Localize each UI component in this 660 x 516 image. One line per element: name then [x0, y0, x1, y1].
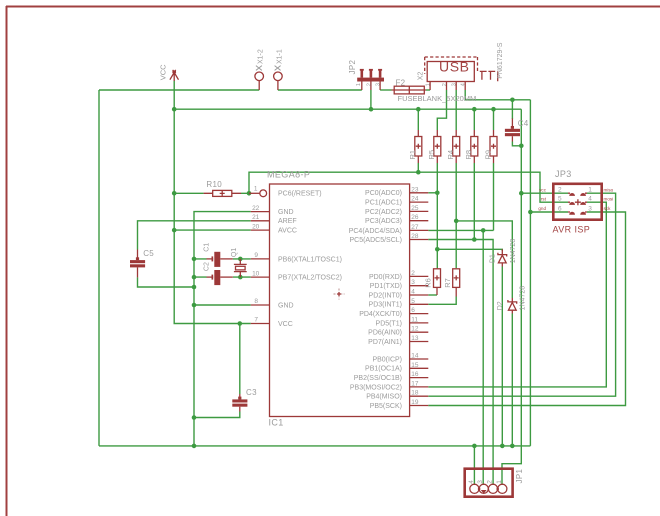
- junction at 521.3,145.8: [519, 144, 524, 149]
- JP3 pin numbers: [558, 186, 592, 212]
- resistor R8: [471, 130, 478, 163]
- IC left pin names: [278, 191, 342, 328]
- svg-text:PB7(XTAL2/TOSC2): PB7(XTAL2/TOSC2): [278, 275, 342, 282]
- svg-text:1: 1: [496, 480, 503, 484]
- svg-text:2: 2: [411, 270, 415, 277]
- VCC supply symbol: [170, 70, 179, 81]
- svg-text:11: 11: [411, 316, 418, 323]
- svg-text:USB: USB: [439, 58, 470, 74]
- svg-text:MEGA8-P: MEGA8-P: [267, 170, 310, 180]
- wire R4 bottom to R7 top: [455, 163, 457, 268]
- svg-text:6: 6: [558, 205, 562, 212]
- wire R10 left to VCC rail: [174, 192, 203, 194]
- wire GND right vertical: [529, 100, 531, 446]
- wire row10 rail to C2: [194, 276, 251, 278]
- svg-text:PD0(RXD): PD0(RXD): [369, 274, 402, 281]
- svg-text:2: 2: [487, 480, 494, 484]
- capacitor C3: [232, 394, 247, 412]
- wire GND top right from USB pin4: [465, 90, 530, 100]
- pin header JP2: [357, 69, 384, 90]
- svg-text:VCC: VCC: [278, 321, 293, 328]
- JP3 net labels: [538, 187, 613, 211]
- svg-text:21: 21: [252, 214, 260, 221]
- svg-text:VCC: VCC: [159, 64, 168, 80]
- svg-text:28: 28: [411, 233, 419, 240]
- svg-text:X1-2: X1-2: [258, 49, 265, 64]
- junction at 249,193.3: [247, 191, 252, 196]
- svg-text:22: 22: [252, 205, 260, 212]
- svg-text:C5: C5: [143, 249, 154, 258]
- svg-text:PD4(XCK/T0): PD4(XCK/T0): [359, 311, 402, 318]
- wire JP2 pin3 to F2: [380, 89, 391, 91]
- IC left pin numbers: [252, 186, 260, 324]
- svg-text:1N4728: 1N4728: [519, 286, 526, 311]
- capacitor C1: [207, 252, 233, 267]
- junction at 502.3,445.9: [500, 444, 505, 449]
- junction at 194,305: [192, 303, 197, 308]
- svg-text:gnd: gnd: [538, 206, 546, 211]
- svg-text:23: 23: [411, 186, 419, 193]
- wire JP1 pin4 GND: [473, 446, 475, 485]
- wire C4 top to GND wire: [511, 100, 513, 119]
- wire SDA branch to JP1 pin3: [482, 230, 484, 485]
- junction at 194,277.1: [192, 275, 197, 280]
- svg-text:14: 14: [411, 353, 419, 360]
- svg-text:PC5(ADC5/SCL): PC5(ADC5/SCL): [349, 237, 402, 244]
- wire pin23 to R5 column: [428, 192, 437, 194]
- svg-text:12: 12: [411, 326, 419, 333]
- svg-text:vcc: vcc: [539, 187, 547, 192]
- svg-text:PB5(SCK): PB5(SCK): [370, 403, 402, 410]
- svg-text:PB0(ICP): PB0(ICP): [372, 356, 402, 363]
- pin header JP3 AVR ISP: [553, 184, 601, 220]
- svg-text:PB6(XTAL1/TOSC1): PB6(XTAL1/TOSC1): [278, 256, 342, 263]
- wire USB pin3 to R4 top: [455, 90, 457, 130]
- svg-text:R6: R6: [424, 278, 433, 288]
- capacitor C2: [207, 270, 233, 285]
- junction at 194,445.9: [192, 444, 197, 449]
- wire SCK JP3 pin3 to PB5 pin19: [428, 212, 625, 406]
- svg-text:PC1(ADC1): PC1(ADC1): [365, 200, 402, 207]
- diode D1 zener 1N4728: [498, 249, 507, 266]
- svg-text:3: 3: [477, 480, 484, 484]
- svg-text:17: 17: [411, 380, 419, 387]
- svg-text:15: 15: [411, 362, 419, 369]
- svg-text:5: 5: [411, 298, 415, 305]
- svg-text:D1: D1: [489, 254, 496, 263]
- svg-text:R5: R5: [427, 150, 436, 160]
- svg-text:PB3(MOSI/OC2): PB3(MOSI/OC2): [350, 384, 402, 391]
- svg-text:9: 9: [254, 252, 258, 259]
- capacitor C4: [505, 119, 520, 142]
- wire JP3 pin2 VCC: [521, 192, 568, 194]
- junction at 418.3,172.2: [416, 170, 421, 175]
- wire R9 bottom SDA column: [493, 163, 495, 230]
- wire GND pin8: [194, 304, 251, 306]
- junction at 371,109.2: [369, 107, 374, 112]
- svg-text:sck: sck: [604, 206, 612, 211]
- svg-text:PB1(OC1A): PB1(OC1A): [365, 366, 402, 373]
- junction at 493.5,109.2: [491, 107, 496, 112]
- svg-text:PN61729-S: PN61729-S: [497, 42, 504, 79]
- svg-text:26: 26: [411, 214, 419, 221]
- wire VCC pin7 branch to C3: [239, 324, 241, 395]
- junction at 194,258.9: [192, 257, 197, 262]
- wire SCL pin28 to JP1 pin2: [428, 240, 493, 486]
- svg-text:PD6(AIN0): PD6(AIN0): [368, 330, 402, 337]
- wire R8 top to bus: [473, 109, 475, 130]
- svg-text:PD5(T1): PD5(T1): [376, 320, 402, 327]
- junction at 512.4,99.8: [510, 98, 515, 103]
- wire R5 bottom to R6 top: [436, 163, 438, 268]
- svg-text:AVR ISP: AVR ISP: [553, 225, 591, 235]
- junction at 474.3,109.2: [472, 107, 477, 112]
- svg-text:1N4728: 1N4728: [510, 239, 517, 264]
- svg-text:13: 13: [411, 335, 419, 342]
- svg-text:C1: C1: [204, 243, 211, 252]
- svg-text:19: 19: [411, 399, 419, 406]
- wire MOSI JP3 pin4 to PB3 pin17: [428, 202, 606, 387]
- svg-text:C3: C3: [246, 388, 257, 397]
- svg-text:JP2: JP2: [348, 59, 357, 74]
- svg-text:PC3(ADC3): PC3(ADC3): [365, 218, 402, 225]
- wire VCC symbol stem: [174, 81, 251, 324]
- wire USB pin2 to R5 top: [437, 90, 446, 130]
- frame border left: [6, 6, 8, 516]
- resistor R1: [415, 130, 422, 163]
- svg-text:FUSEBLANK_5X20MM: FUSEBLANK_5X20MM: [398, 94, 477, 103]
- svg-text:AVCC: AVCC: [278, 228, 297, 235]
- svg-text:AREF: AREF: [278, 218, 297, 225]
- junction at 437.3,192.8: [435, 191, 440, 196]
- svg-text:C4: C4: [518, 119, 529, 128]
- wire F2 to USB pin1: [426, 89, 430, 91]
- junction at 418.3,109.2: [416, 107, 421, 112]
- svg-text:2: 2: [367, 83, 373, 86]
- svg-text:3: 3: [452, 83, 458, 86]
- svg-text:PC4(ADC4/SDA): PC4(ADC4/SDA): [349, 228, 402, 235]
- resistor R10: [204, 190, 241, 196]
- svg-text:4: 4: [411, 289, 415, 296]
- wire R1 bottom to reset: [417, 163, 419, 172]
- wire D1 bottom to GND: [501, 267, 503, 446]
- svg-text:R4: R4: [446, 150, 455, 160]
- wire JP2 pin2 down to bus: [370, 90, 372, 109]
- svg-text:PC0(ADC0): PC0(ADC0): [365, 190, 402, 197]
- svg-text:GND: GND: [278, 209, 294, 216]
- svg-text:3: 3: [588, 205, 592, 212]
- USB connector X2: [425, 57, 478, 90]
- wire D+ to zener D2: [456, 221, 512, 298]
- junction at 174.2,109.2: [172, 107, 177, 112]
- svg-text:JP3: JP3: [555, 169, 572, 179]
- svg-text:20: 20: [252, 223, 260, 230]
- svg-text:4: 4: [461, 83, 467, 86]
- USB shield pins: [480, 71, 498, 81]
- connector pad X1-2: [255, 66, 264, 90]
- resistor R9: [490, 130, 497, 163]
- wire GND top-left to X1-2: [99, 89, 259, 91]
- junction at 239.8,323.5: [238, 321, 243, 326]
- wire R1 top to bus: [417, 109, 419, 130]
- wire VCC bus top: [174, 108, 521, 110]
- svg-text:PD1(TXD): PD1(TXD): [370, 283, 402, 290]
- svg-text:4: 4: [468, 480, 475, 484]
- svg-text:2: 2: [442, 83, 448, 86]
- IC right pin names: [349, 190, 402, 410]
- svg-text:R7: R7: [443, 278, 452, 288]
- resistor R6: [434, 268, 441, 295]
- svg-text:1: 1: [588, 186, 592, 193]
- svg-text:R1: R1: [408, 150, 417, 160]
- wire AVCC pin20: [174, 229, 251, 231]
- svg-text:25: 25: [411, 205, 419, 212]
- fuse F2: [392, 86, 427, 94]
- junction at 240.3,277.1: [238, 275, 243, 280]
- svg-text:1: 1: [356, 83, 362, 86]
- svg-text:2: 2: [558, 186, 562, 193]
- svg-text:1: 1: [254, 186, 258, 193]
- svg-text:3: 3: [411, 279, 415, 286]
- svg-text:X2: X2: [417, 72, 424, 81]
- svg-text:D2: D2: [497, 301, 504, 310]
- junction at 194,287: [192, 285, 197, 290]
- svg-text:4: 4: [588, 196, 592, 203]
- svg-text:10: 10: [252, 270, 260, 277]
- wire JP3 pin6 GND: [530, 211, 568, 213]
- svg-text:JP1: JP1: [515, 468, 524, 483]
- junction at 530.4,212: [528, 210, 533, 215]
- svg-text:R10: R10: [206, 180, 222, 189]
- wire GND pin22 of IC to left rail: [194, 212, 251, 446]
- wire R9 top to bus: [493, 109, 495, 130]
- svg-text:C2: C2: [204, 262, 211, 271]
- svg-text:F2: F2: [396, 78, 406, 87]
- junction at 474.3,239.5: [472, 237, 477, 242]
- junction at 512.3,445.9: [510, 444, 515, 449]
- wire C4 bottom to VCC vertical: [512, 142, 521, 146]
- wire RESET net R10 to JP3 pin5: [241, 172, 568, 202]
- svg-text:7: 7: [254, 317, 258, 324]
- svg-text:GND: GND: [278, 302, 294, 309]
- resistor R4: [453, 130, 460, 163]
- svg-text:24: 24: [411, 196, 419, 203]
- wire R6 bottom to PD2 pin4: [428, 294, 437, 296]
- wire SDA pin27 to R9: [428, 229, 493, 231]
- svg-text:27: 27: [411, 224, 419, 231]
- diode D2 zener 1N4728: [508, 298, 517, 314]
- svg-text:rst: rst: [541, 197, 547, 202]
- junction at 240.3,258.9: [238, 257, 243, 262]
- svg-text:PD3(INT1): PD3(INT1): [369, 302, 402, 309]
- wire GND left vertical: [98, 90, 100, 446]
- wire VCC right vertical to JP1 pin1: [502, 109, 521, 485]
- svg-text:5: 5: [558, 196, 562, 203]
- junction at 174.2,230.1: [172, 228, 177, 233]
- capacitor C5: [130, 250, 145, 278]
- svg-text:3: 3: [376, 83, 382, 86]
- op-amp U1 IC1 MEGA8-P body: [249, 184, 428, 417]
- wire GND bottom horizontal: [99, 445, 530, 447]
- crystal Q1: [234, 259, 247, 277]
- wire row9 rail to C1: [194, 258, 251, 260]
- junction at 174.2,193.3: [172, 191, 177, 196]
- svg-text:PC6(/RESET): PC6(/RESET): [278, 191, 322, 198]
- svg-text:16: 16: [411, 371, 419, 378]
- svg-text:IC1: IC1: [269, 418, 284, 428]
- junction at 474.4,445.9: [472, 444, 477, 449]
- junction at 437.3,249.3: [435, 247, 440, 252]
- svg-text:PD7(AIN1): PD7(AIN1): [368, 339, 402, 346]
- svg-text:R8: R8: [464, 150, 473, 160]
- svg-text:8: 8: [254, 298, 258, 305]
- svg-text:PD2(INT0): PD2(INT0): [369, 292, 402, 299]
- frame border top: [6, 6, 660, 8]
- wire R8 bottom SCL column: [473, 163, 475, 240]
- wire C3 bottom to rail: [194, 412, 240, 418]
- pin header JP1: [465, 469, 513, 497]
- wire MISO JP3 pin1 to PB4 pin18: [428, 193, 615, 396]
- IC right pin numbers: [411, 186, 419, 406]
- svg-text:R9: R9: [483, 150, 492, 160]
- JP1 pin numbers: [468, 480, 503, 484]
- wire R7 bottom to PD3 pin5: [428, 297, 456, 305]
- svg-text:6: 6: [411, 307, 415, 314]
- svg-text:X1-1: X1-1: [276, 49, 283, 64]
- resistor R7: [453, 269, 460, 297]
- junction at 456.2,220.9: [454, 219, 459, 224]
- svg-text:PB2(SS/OC1B): PB2(SS/OC1B): [354, 375, 402, 382]
- svg-text:18: 18: [411, 390, 419, 397]
- wire C5 bottom to rail: [138, 277, 195, 287]
- svg-text:miso: miso: [604, 187, 614, 192]
- connector pad X1-1: [274, 66, 283, 90]
- svg-text:PB4(MISO): PB4(MISO): [366, 394, 402, 401]
- wire VBUS X1-1 to JP2 pin1: [278, 89, 362, 91]
- svg-text:1: 1: [426, 83, 432, 86]
- junction at 483.2,230.4: [481, 228, 486, 233]
- svg-text:mosi: mosi: [604, 197, 614, 202]
- wire D- to zener D1: [437, 249, 502, 251]
- resistor R5: [434, 130, 441, 163]
- wire AREF pin21 to C5: [138, 221, 251, 250]
- svg-text:Q1: Q1: [231, 248, 238, 257]
- junction at 194,417.5: [192, 415, 197, 420]
- wire D2 bottom to GND: [511, 314, 513, 446]
- junction at 521.3,193.2: [519, 191, 524, 196]
- svg-text:PC2(ADC2): PC2(ADC2): [365, 209, 402, 216]
